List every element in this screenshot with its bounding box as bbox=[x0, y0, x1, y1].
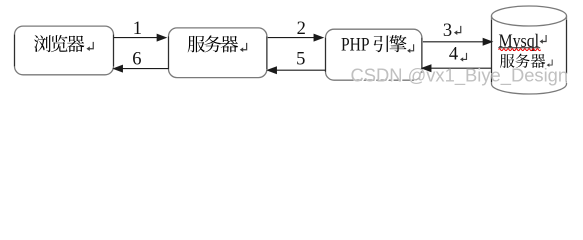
svg-text:4: 4 bbox=[449, 44, 458, 64]
arrow 4: Mysql back to PHP engine bbox=[422, 65, 491, 71]
return mark after 4 bbox=[460, 53, 467, 62]
return mark after 3 bbox=[454, 26, 461, 35]
arrow 3: PHP engine to Mysql bbox=[423, 39, 492, 45]
svg-text:PHP: PHP bbox=[341, 35, 370, 56]
arrow 5: PHP engine back to server bbox=[268, 67, 326, 73]
return mark after 引擎 bbox=[407, 44, 414, 53]
arrow 6: server back to browser bbox=[114, 65, 169, 71]
svg-text:6: 6 bbox=[132, 50, 141, 70]
red spellcheck squiggle under Mysql bbox=[499, 49, 541, 51]
box2 server rounded rect bbox=[169, 28, 267, 78]
svg-text:3: 3 bbox=[443, 21, 452, 41]
svg-text:5: 5 bbox=[296, 50, 305, 70]
return mark after 服务器 bbox=[240, 43, 247, 52]
svg-text:2: 2 bbox=[297, 19, 306, 39]
svg-text:CSDN @vx1_Biye_Design: CSDN @vx1_Biye_Design bbox=[351, 66, 569, 87]
svg-text:1: 1 bbox=[133, 19, 142, 39]
label 引擎 (engine) bbox=[374, 35, 407, 52]
return mark after 浏览器 bbox=[86, 42, 93, 51]
box3 PHP engine rounded rect bbox=[326, 29, 422, 80]
return mark after cylinder 服务器 bbox=[547, 60, 553, 67]
label 服务器 (server) bbox=[188, 35, 238, 52]
arrow 2: server to PHP engine bbox=[268, 34, 323, 40]
underline of Mysql bbox=[498, 47, 540, 49]
label 服务器 (server) in cylinder bbox=[500, 54, 545, 68]
watermark CSDN @vx1_Biye_Design bbox=[351, 66, 570, 88]
cylinder Mysql server (database) bbox=[492, 6, 567, 94]
arrow 1: browser to server bbox=[114, 34, 166, 40]
return mark after Mysql bbox=[540, 35, 547, 44]
box1 browser rounded rect bbox=[15, 26, 114, 75]
label 浏览器 (browser) bbox=[34, 35, 84, 52]
